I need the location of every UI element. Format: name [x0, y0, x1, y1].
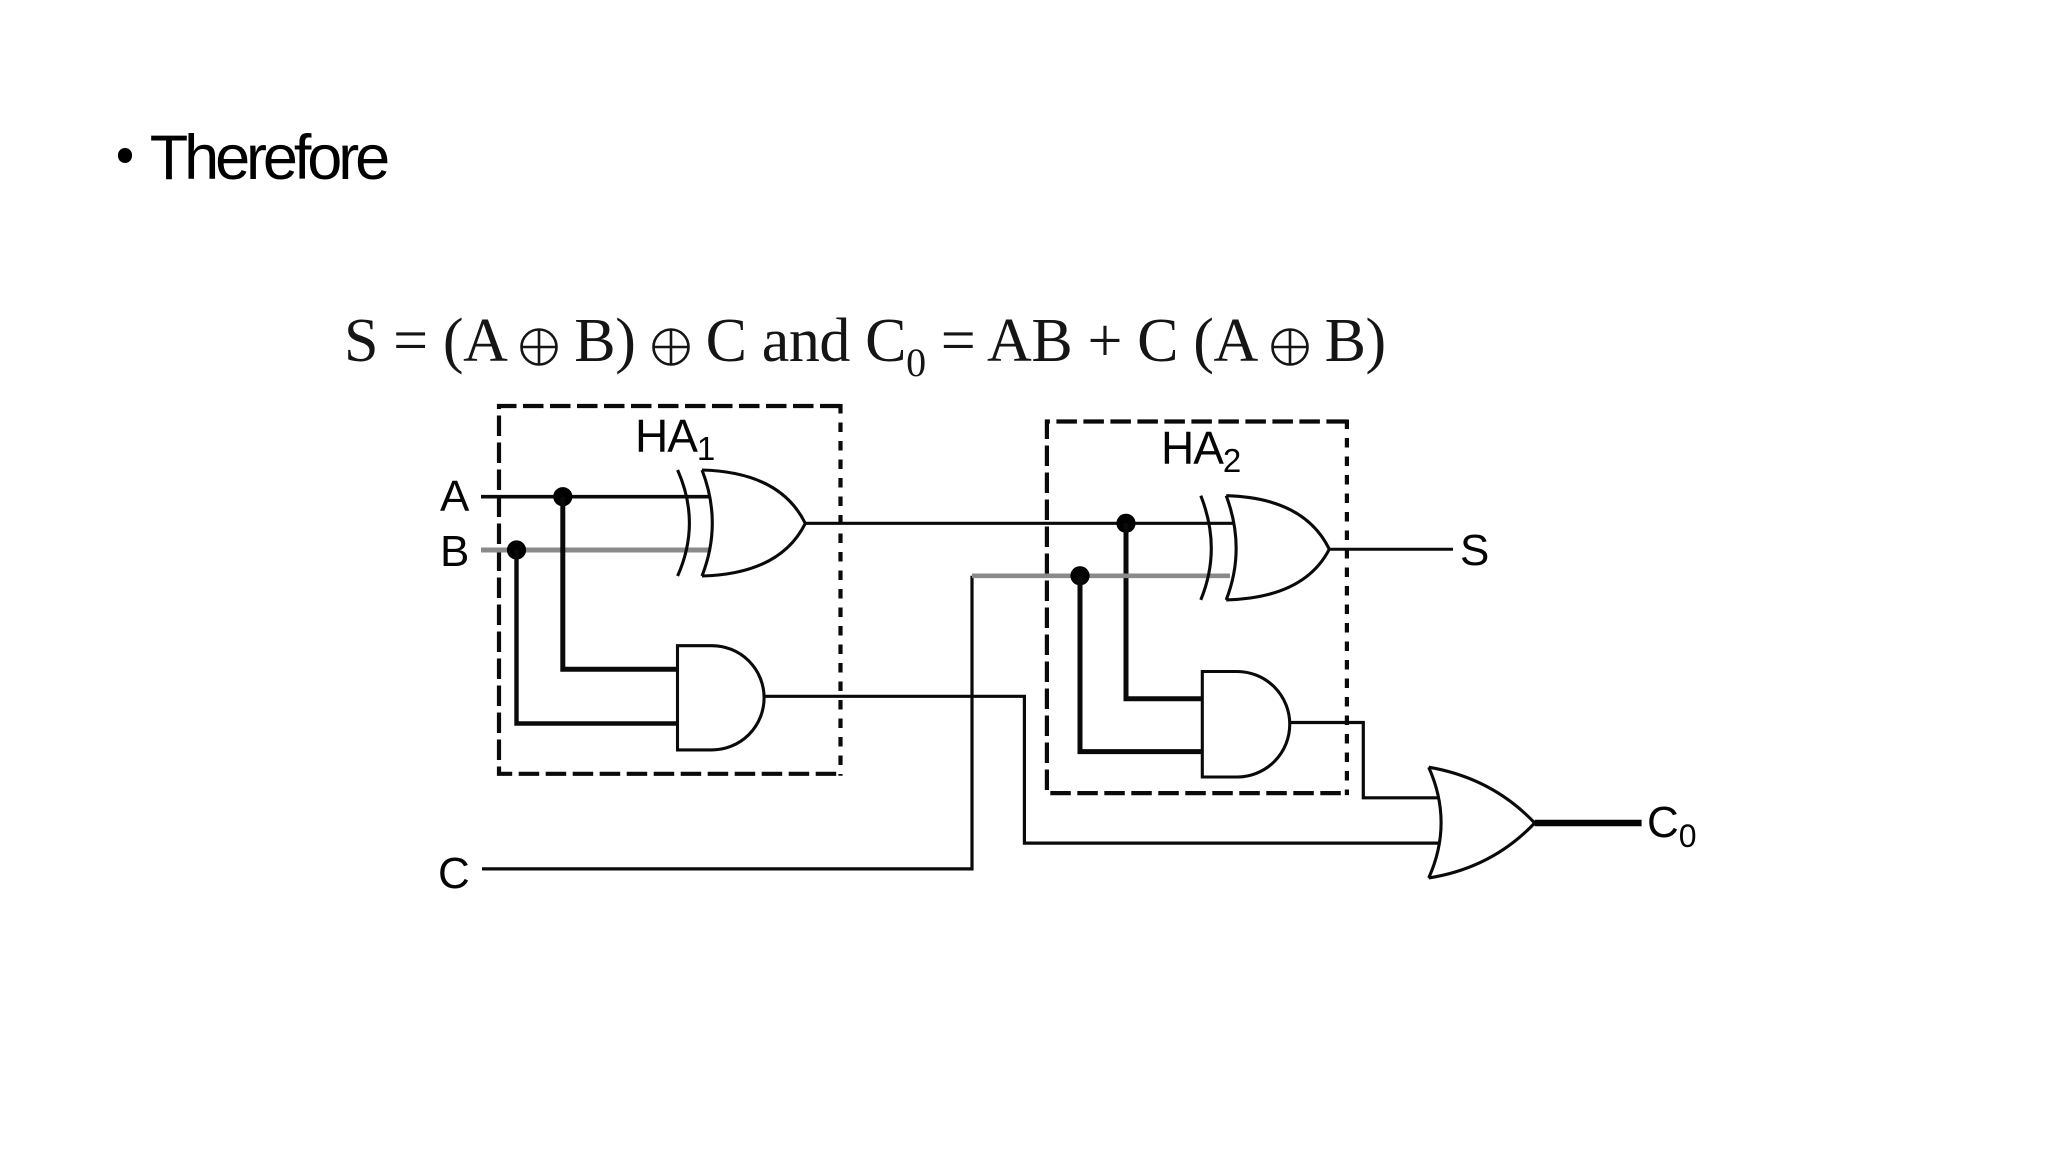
wire AND1 output to OR bottom input: [765, 696, 1439, 843]
wire XOR2 output to S: [1329, 548, 1453, 551]
or gate OR1: [1429, 767, 1535, 878]
xor gate XOR2 of HA2: [1201, 496, 1330, 600]
wire A tap to AND1: [563, 497, 678, 670]
equation S = (A xor B) xor C and C0 = AB + C (A xor B): [344, 310, 1386, 383]
wire C riser to XOR2 (gray): [972, 573, 1230, 578]
wire OR output to C0: [1535, 820, 1642, 826]
label C0: [1647, 801, 1697, 852]
wire tap to AND2 bottom input: [1080, 576, 1202, 752]
node A junction dot: [553, 487, 572, 506]
wire XOR1 output to XOR2 input: [805, 522, 1234, 525]
node B junction dot: [507, 540, 526, 559]
title text Therefore: [150, 127, 386, 190]
label C: [438, 852, 470, 896]
wire A input: [481, 495, 709, 499]
xor gate XOR1 of HA1: [678, 470, 806, 576]
label HA2: [1161, 425, 1240, 477]
label A: [440, 475, 469, 519]
wire AND2 output to OR top input: [1291, 723, 1438, 798]
half-adder box HA1 (dashed): [499, 406, 841, 774]
label HA1: [635, 413, 714, 465]
half-adder box HA2 (dashed): [1047, 422, 1347, 794]
wire B tap to AND1: [517, 550, 678, 724]
node junction dot on XOR1 output: [1116, 514, 1135, 533]
wire B input (gray): [481, 548, 709, 553]
wire tap to AND2 top input: [1126, 523, 1202, 699]
wire C input: [482, 576, 972, 869]
and gate AND1 of HA1: [678, 646, 765, 750]
and gate AND2 of HA2: [1202, 672, 1289, 778]
label S: [1460, 529, 1489, 573]
node junction dot on C wire: [1070, 566, 1089, 585]
title bullet: [118, 148, 133, 163]
label B: [440, 530, 469, 574]
